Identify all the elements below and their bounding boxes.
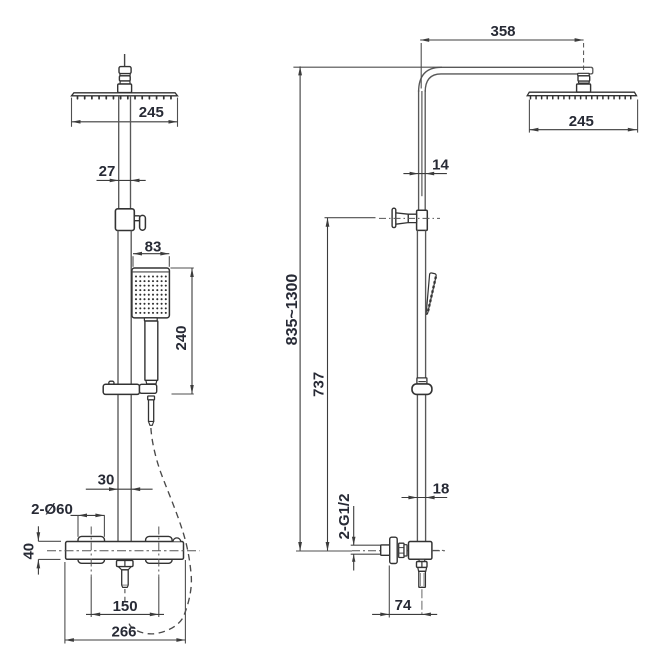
- mixer valve with wall connection (side view): [381, 537, 432, 563]
- upper column pipe 27mm (front view): [119, 96, 131, 209]
- mixer outlet fitting (front view): [117, 560, 134, 587]
- dimension 40 (body height): [21, 526, 62, 574]
- dimension 18 (lower pipe width): [402, 481, 450, 500]
- svg-text:2-G1/2: 2-G1/2: [336, 494, 353, 540]
- svg-text:74: 74: [395, 597, 412, 614]
- overhead shower nozzles (side view): [531, 96, 631, 99]
- dimension 2-Ø60 (escutcheon diameter): [31, 501, 105, 537]
- diverter centerline (side view): [379, 217, 440, 219]
- svg-text:2-Ø60: 2-Ø60: [31, 501, 73, 518]
- dimension 358 (arm reach): [420, 23, 583, 93]
- dimension 835~1300 (column height): [284, 66, 442, 551]
- svg-text:27: 27: [99, 163, 116, 180]
- overhead shower head plate (side view): [527, 92, 636, 96]
- hand shower head and handle (front view): [132, 268, 170, 384]
- dimension 266 (mixer overall width): [65, 560, 185, 644]
- wall mount escutcheons 2x (front view): [78, 536, 172, 563]
- dimension 245 (front overhead width): [72, 98, 178, 127]
- dimension 74 (wall to outlet): [372, 566, 437, 618]
- riser pipe upper 14mm (side view): [419, 90, 426, 210]
- dimension 30 (lower pipe width): [86, 472, 153, 492]
- overhead shower nozzles (front view): [78, 96, 171, 98]
- mixer horizontal centerline: [47, 550, 200, 552]
- bottom reference line at mixer axis: [296, 550, 446, 552]
- mixer outlet fitting (side view): [417, 559, 428, 587]
- dimension 737 (valve to mixer): [310, 218, 375, 551]
- svg-text:245: 245: [569, 113, 594, 130]
- slide holder (side view): [412, 378, 432, 395]
- svg-text:266: 266: [111, 624, 136, 641]
- svg-text:30: 30: [98, 472, 115, 489]
- hand shower wand (side view): [426, 273, 436, 314]
- overhead shower arm connector nut (front view): [118, 67, 132, 93]
- shower arm bend and horizontal arm (side view): [419, 67, 593, 196]
- overhead shower supply stub (front view): [124, 54, 126, 67]
- svg-text:150: 150: [113, 598, 138, 615]
- overhead shower head plate (front view): [72, 93, 178, 96]
- diverter valve with knob (front view): [115, 209, 145, 231]
- slide rail holder (front view): [103, 381, 157, 394]
- dimension 245 (side overhead width): [529, 100, 637, 133]
- svg-text:83: 83: [145, 239, 162, 256]
- dimension 83 (hand shower width): [133, 239, 169, 267]
- mixer valve body (front view): [66, 542, 184, 560]
- svg-text:835~1300: 835~1300: [284, 274, 301, 346]
- flexible shower hose (dashed curve): [129, 428, 192, 634]
- mixer centerline stub (side view): [432, 549, 445, 551]
- dimension 14 (upper pipe width): [403, 157, 449, 176]
- dimension 150 (mount spacing): [86, 577, 164, 617]
- hose hook detail on mixer body: [173, 538, 181, 542]
- dimension 240 (hand shower height): [170, 268, 193, 394]
- hand shower hose connector (front view): [148, 396, 155, 425]
- overhead shower connector nut (side view): [577, 73, 591, 92]
- svg-text:40: 40: [21, 543, 38, 560]
- wall supply pipe (side view): [351, 545, 381, 554]
- svg-text:18: 18: [433, 481, 450, 498]
- svg-text:245: 245: [139, 104, 164, 121]
- escutcheon centerlines (vertical): [91, 527, 159, 578]
- svg-text:737: 737: [310, 372, 327, 397]
- riser pipe lower 18mm (side view): [417, 230, 425, 541]
- dimension 2-G1/2 (supply thread): [336, 494, 355, 571]
- svg-text:358: 358: [490, 23, 515, 40]
- dimension 27 (pipe width): [97, 163, 146, 182]
- diverter valve cross handle (side view): [392, 208, 427, 230]
- svg-text:14: 14: [432, 157, 449, 174]
- outlet centerline (side view): [421, 589, 423, 614]
- svg-text:240: 240: [173, 325, 190, 350]
- outlet centerline dashes (front): [124, 589, 126, 601]
- lower column pipe 30mm (front view): [118, 231, 131, 542]
